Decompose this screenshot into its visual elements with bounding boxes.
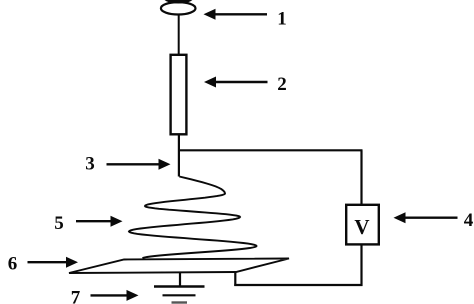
arrow pointer 1 [204, 9, 268, 20]
wire: bottom horizontal return [234, 284, 362, 286]
spiral coil L1 (item 5) [129, 177, 257, 259]
svg-text:V: V [354, 215, 369, 239]
svg-text:6: 6 [8, 254, 18, 275]
voltmeter box U1 (item 4) [346, 205, 379, 245]
svg-text:3: 3 [85, 154, 95, 175]
label 2 [277, 74, 287, 95]
svg-text:4: 4 [464, 210, 474, 231]
ground symbol bar 3 [172, 301, 188, 303]
svg-text:2: 2 [277, 74, 287, 95]
svg-text:1: 1 [277, 9, 287, 30]
wire: right vertical down to voltmeter [360, 150, 362, 205]
arrow pointer 5 [76, 216, 123, 227]
svg-text:7: 7 [71, 288, 81, 304]
wire: voltmeter bottom lead [360, 244, 362, 286]
ground symbol (item 7) bar 1 [154, 285, 205, 287]
wire: up from bottom return to plate [234, 272, 236, 287]
wire: tube to coil through node 3 [178, 134, 180, 176]
wire: top horizontal branch to voltmeter [179, 149, 363, 151]
wire: plate to ground stem [179, 272, 181, 287]
label 3 (node) [85, 154, 95, 175]
arrow pointer 3 [107, 159, 171, 170]
arrow pointer 6 [28, 257, 79, 268]
label 7 (ground) [71, 288, 81, 304]
arrow pointer 7 [91, 290, 139, 301]
arrow pointer 2 [204, 77, 268, 88]
wire: electrode to tube [178, 14, 180, 54]
label 6 (plate) [8, 254, 18, 275]
label 1 [277, 9, 287, 30]
ground plate (item 6) [69, 259, 289, 274]
dielectric tube (item 2) [171, 55, 187, 135]
arrow pointer 4 [394, 212, 458, 223]
label 4 [464, 210, 474, 231]
ground symbol bar 2 [163, 294, 196, 296]
label 5 (coil) [54, 213, 64, 234]
clipped dark object at top edge above toroid [164, 0, 193, 4]
svg-text:5: 5 [54, 213, 64, 234]
voltmeter label V [354, 215, 369, 239]
top electrode ellipse (item 1) [161, 2, 196, 14]
